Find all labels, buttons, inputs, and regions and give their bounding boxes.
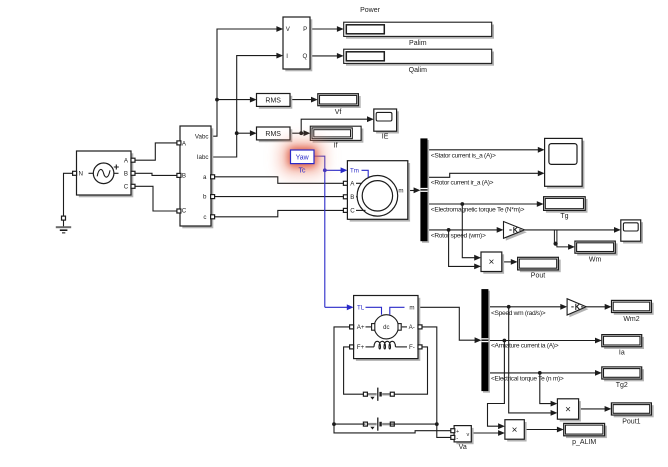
svg-text:Tg2: Tg2 xyxy=(616,382,628,389)
svg-text:Tc: Tc xyxy=(299,167,307,174)
svg-text:×: × xyxy=(512,425,518,436)
svg-text:<Stator current is_a (A)>: <Stator current is_a (A)> xyxy=(431,152,496,159)
svg-text:m: m xyxy=(398,188,403,195)
svg-text:Vf: Vf xyxy=(335,109,342,116)
svg-text:×: × xyxy=(488,257,494,268)
svg-text:<Rotor current ir_a (A)>: <Rotor current ir_a (A)> xyxy=(431,179,494,186)
svg-text:A+: A+ xyxy=(357,324,365,331)
svg-text:Ia: Ia xyxy=(619,350,625,357)
svg-text:A-: A- xyxy=(409,324,415,331)
svg-text:B: B xyxy=(182,173,186,180)
svg-text:RMS: RMS xyxy=(265,131,281,138)
svg-text:v: v xyxy=(467,432,470,438)
svg-text:Wm2: Wm2 xyxy=(623,316,639,323)
svg-text:<Electromagnetic torque Te (N*: <Electromagnetic torque Te (N*m)> xyxy=(431,207,525,214)
svg-text:P: P xyxy=(303,26,307,33)
svg-text:Pout: Pout xyxy=(531,272,545,279)
svg-text:Va: Va xyxy=(459,444,467,451)
svg-text:C: C xyxy=(182,208,187,215)
svg-text:TL: TL xyxy=(357,305,365,312)
svg-text:Vabc: Vabc xyxy=(195,133,209,140)
svg-text:RMS: RMS xyxy=(265,98,281,105)
svg-text:+: + xyxy=(456,429,459,435)
svg-text:N: N xyxy=(78,171,82,178)
svg-text:-: - xyxy=(456,436,458,442)
svg-text:B: B xyxy=(350,194,354,201)
svg-text:×: × xyxy=(565,404,571,415)
svg-text:p_ALIM: p_ALIM xyxy=(572,439,596,446)
svg-text:Qalim: Qalim xyxy=(409,67,427,74)
svg-text:I: I xyxy=(286,53,288,60)
svg-text:<Armature current ia (A)>: <Armature current ia (A)> xyxy=(491,342,559,349)
svg-text:dc: dc xyxy=(383,325,389,331)
svg-text:c: c xyxy=(203,214,206,221)
svg-text:B: B xyxy=(124,171,128,178)
svg-text:Palim: Palim xyxy=(409,40,427,47)
svg-text:m: m xyxy=(409,305,414,312)
svg-text:b: b xyxy=(203,194,207,201)
svg-text:C: C xyxy=(350,208,355,215)
svg-text:Yaw: Yaw xyxy=(296,155,310,162)
svg-text:<Speed wm (rad/s)>: <Speed wm (rad/s)> xyxy=(491,310,546,317)
svg-text:Wm: Wm xyxy=(589,256,602,263)
svg-text:If: If xyxy=(334,142,338,149)
svg-text:Pout1: Pout1 xyxy=(622,418,640,425)
svg-text:<Rotor speed (wm)>: <Rotor speed (wm)> xyxy=(431,232,486,239)
svg-text:F-: F- xyxy=(409,344,415,351)
svg-text:Tg: Tg xyxy=(560,213,568,220)
svg-text:<Electrical torque Te (n m)>: <Electrical torque Te (n m)> xyxy=(491,375,564,382)
svg-text:IE: IE xyxy=(382,133,389,140)
svg-text:C: C xyxy=(124,184,129,191)
svg-text:Q: Q xyxy=(302,53,307,60)
svg-text:F+: F+ xyxy=(357,344,365,351)
svg-text:a: a xyxy=(203,174,207,181)
svg-text:Iabc: Iabc xyxy=(197,154,209,161)
svg-text:Tm: Tm xyxy=(350,168,359,175)
svg-text:Power: Power xyxy=(360,7,381,14)
